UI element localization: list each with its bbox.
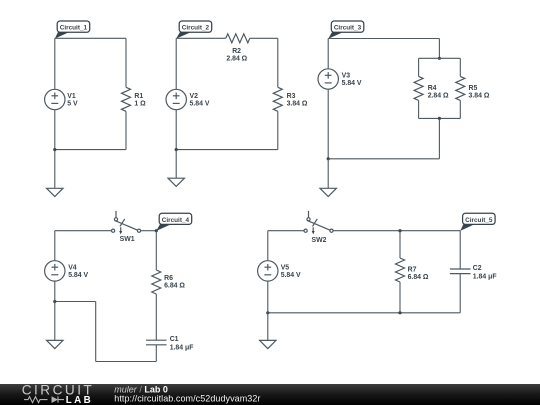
node label Circuit_2 [176, 21, 212, 39]
junction c3 left [327, 157, 330, 160]
wire left upper c2 [175, 38, 177, 89]
wire top left c2 [176, 37, 226, 39]
svg-text:Circuit_4: Circuit_4 [162, 217, 190, 224]
junction c2 [175, 148, 178, 151]
wire left lower c2 [175, 110, 177, 150]
wire left lower c1 [54, 110, 56, 150]
resistor R6 [152, 270, 161, 294]
svg-text:2.84 Ω: 2.84 Ω [226, 56, 247, 63]
junction c4 left [53, 300, 56, 303]
resistor R2 [226, 34, 250, 43]
svg-text:5 V: 5 V [67, 101, 78, 108]
capacitor C2 [450, 269, 471, 274]
voltage source V5 [258, 261, 278, 281]
voltage source V4 [45, 261, 65, 281]
junction c3 top [438, 57, 441, 60]
junction c3 bottom [438, 117, 441, 120]
wire ground stem c1 [54, 150, 56, 189]
ground c3 [320, 188, 336, 196]
svg-text:SW1: SW1 [120, 236, 135, 243]
voltage source V3 [318, 69, 338, 89]
switch SW2 [304, 211, 333, 235]
wire ground stem c5 [267, 313, 269, 341]
resistor R3 [273, 87, 282, 111]
svg-text:R5: R5 [469, 85, 478, 92]
wire right upper c2 [277, 38, 279, 87]
switch SW1 [112, 211, 141, 235]
svg-text:5.84 V: 5.84 V [68, 272, 88, 279]
wire left upper c3 [327, 39, 329, 69]
wire bottom c2 [176, 149, 278, 151]
svg-text:1.84 μF: 1.84 μF [473, 273, 497, 280]
wire top left c5 [268, 230, 304, 232]
wire ground stem c4 [54, 302, 56, 341]
capacitor C1 [146, 340, 167, 345]
wire R4 top tail [418, 58, 420, 76]
junction c4 top [155, 229, 158, 232]
svg-text:2.84 Ω: 2.84 Ω [428, 93, 449, 100]
wire switch to node c4 [141, 230, 157, 232]
wire top c3 [328, 38, 439, 40]
svg-text:V3: V3 [342, 73, 351, 80]
ground c4 [47, 340, 63, 348]
svg-text:Circuit_2: Circuit_2 [182, 25, 210, 32]
wire left lower c5 [267, 281, 269, 313]
wire left upper c5 [267, 231, 269, 261]
junction c5 R7 top [398, 229, 401, 232]
junction c5 left [266, 311, 269, 314]
svg-text:R4: R4 [428, 85, 437, 92]
wire parallel bottom rail [419, 117, 461, 119]
wire R4 bottom tail [418, 100, 420, 118]
ground c1 [47, 188, 63, 196]
svg-text:http://circuitlab.com/c52dudyv: http://circuitlab.com/c52dudyvam32r [114, 393, 260, 403]
node label Circuit_5 [460, 213, 495, 231]
wire bottom c4 [96, 361, 157, 363]
wire R7 top tail c5 [399, 231, 401, 258]
wire ground stem c3 [327, 159, 329, 189]
wire bottom to junction c4 [55, 301, 96, 303]
svg-text:V1: V1 [67, 93, 76, 100]
svg-text:Circuit_5: Circuit_5 [465, 217, 493, 224]
wire left lower c3 [327, 89, 329, 159]
wire left lower c4 [54, 281, 56, 301]
svg-text:5.84 V: 5.84 V [281, 272, 301, 279]
junction c5 R7 bottom [398, 311, 401, 314]
wire right upper c1 [125, 38, 127, 87]
wire top left c4 [55, 230, 112, 232]
svg-text:R3: R3 [287, 93, 296, 100]
junction c1 [53, 148, 56, 151]
svg-text:6.84 Ω: 6.84 Ω [408, 274, 429, 281]
wire left upper c1 [54, 38, 56, 89]
wire right upper c4 [155, 231, 157, 270]
svg-text:1.84 μF: 1.84 μF [170, 345, 194, 352]
ground c5 [260, 340, 276, 348]
svg-text:6.84 Ω: 6.84 Ω [164, 282, 185, 289]
svg-text:1 Ω: 1 Ω [134, 101, 146, 108]
svg-text:5.84 V: 5.84 V [342, 80, 362, 87]
wire C2 top tail c5 [459, 231, 461, 269]
wire right lower c3 [438, 118, 440, 158]
wire C2 bottom tail c5 [459, 274, 461, 313]
resistor R4 [414, 76, 423, 100]
wire R5 bottom tail [459, 100, 461, 118]
svg-text:3.84 Ω: 3.84 Ω [469, 93, 490, 100]
voltage source V2 [166, 89, 186, 109]
svg-text:C1: C1 [170, 336, 179, 343]
wire ground stem c2 [175, 150, 177, 179]
svg-text:V4: V4 [68, 265, 77, 272]
svg-text:Circuit_3: Circuit_3 [334, 25, 362, 32]
svg-text:R2: R2 [232, 48, 241, 55]
svg-text:Circuit_1: Circuit_1 [60, 25, 88, 32]
wire switch to C2 corner c5 [333, 230, 460, 232]
svg-text:3.84 Ω: 3.84 Ω [287, 101, 308, 108]
wire top right c2 [250, 37, 278, 39]
wire C1 down c4 [155, 345, 157, 362]
wire right drop c3 [438, 39, 440, 59]
wire R7 bottom tail c5 [399, 282, 401, 313]
resistor R5 [456, 76, 465, 100]
wire bottom c3 [328, 158, 439, 160]
svg-text:R7: R7 [408, 267, 417, 274]
svg-text:C2: C2 [473, 265, 482, 272]
node label Circuit_1 [55, 21, 90, 39]
svg-text:R1: R1 [134, 93, 143, 100]
wire right lower c2 [277, 111, 279, 149]
wire bottom riser c4 [95, 302, 97, 362]
wire right lower c1 [125, 111, 127, 149]
ground c2 [168, 178, 184, 186]
svg-text:V2: V2 [190, 93, 199, 100]
resistor R1 [122, 87, 131, 111]
wire bottom c1 [55, 149, 126, 151]
wire bottom c5 [268, 312, 460, 314]
wire left upper c4 [54, 231, 56, 261]
wire R5 top tail [459, 58, 461, 76]
wire parallel top rail [419, 57, 461, 59]
svg-text:V5: V5 [281, 265, 290, 272]
svg-text:5.84 V: 5.84 V [190, 101, 210, 108]
voltage source V1 [45, 89, 65, 109]
node label Circuit_4 [156, 213, 191, 231]
resistor R7 [396, 258, 405, 282]
svg-text:LAB: LAB [66, 395, 93, 405]
svg-text:SW2: SW2 [312, 237, 327, 244]
svg-text:R6: R6 [164, 275, 173, 282]
wire top c1 [55, 37, 126, 39]
node label Circuit_3 [328, 21, 364, 39]
wire R6 to C1 [155, 294, 157, 340]
